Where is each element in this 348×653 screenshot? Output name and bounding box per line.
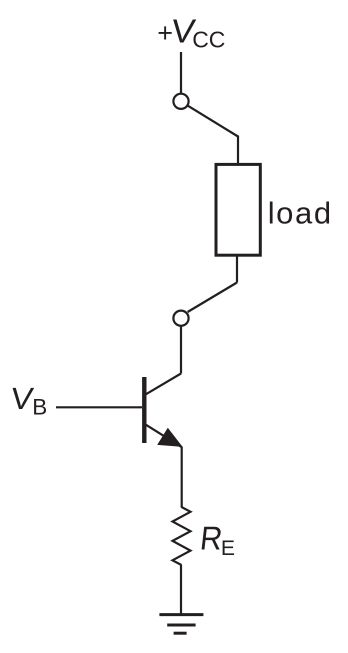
bottom open-circle terminal <box>173 311 188 326</box>
resistor RE zigzag <box>173 507 191 565</box>
transistor Q1 base bar <box>142 377 146 443</box>
wire diagonal to collector of Q1 <box>145 374 181 395</box>
svg-text:B: B <box>32 395 47 420</box>
svg-text:CC: CC <box>192 27 225 53</box>
transistor Q1 emitter arrowhead <box>157 428 182 447</box>
load rectangle <box>216 164 260 255</box>
svg-text:E: E <box>221 537 235 560</box>
ground symbol bar 3 <box>174 632 187 635</box>
wire diagonal to bottom terminal <box>188 283 237 313</box>
wire from bottom terminal down <box>180 326 182 374</box>
wire from top terminal to load (diagonal) <box>188 106 238 137</box>
wire from +VCC down to top terminal <box>180 52 182 93</box>
svg-text:load: load <box>268 195 333 230</box>
top open-circle terminal <box>173 94 188 109</box>
label RE <box>198 519 235 559</box>
label VB <box>9 381 48 419</box>
wire base of Q1 <box>56 406 142 408</box>
wire emitter to resistor RE <box>181 447 183 508</box>
node +VCC label <box>157 13 225 52</box>
wire resistor RE to ground <box>180 565 182 616</box>
ground symbol bar 2 <box>167 624 195 627</box>
ground symbol bar 1 <box>159 613 203 616</box>
transistor Q1 emitter line <box>146 425 182 448</box>
wire vertical into load top <box>237 136 239 165</box>
wire from load bottom <box>236 256 238 283</box>
